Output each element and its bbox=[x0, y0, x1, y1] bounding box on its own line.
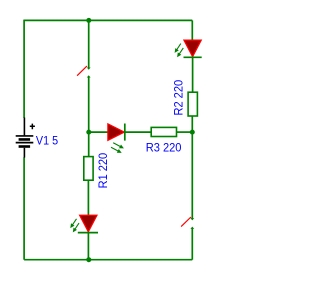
wire left rail upper (battery + lead) bbox=[23, 20, 25, 118]
wire right branch: switch SW2 to bottom rail bbox=[191, 229, 193, 260]
battery V1 bbox=[16, 118, 35, 158]
svg-text:R2 220: R2 220 bbox=[173, 80, 185, 116]
switch SW2 (right branch, open) bbox=[181, 217, 194, 229]
node junction middle-right (C) bbox=[190, 130, 195, 135]
wire top rail bbox=[24, 19, 192, 21]
LED D3 (bottom left, pointing down) bbox=[70, 215, 98, 232]
resistor R2 bbox=[188, 92, 197, 116]
node junction bottom (D) bbox=[86, 257, 91, 262]
LED D2 (middle, pointing right) bbox=[108, 124, 125, 153]
svg-text:R3 220: R3 220 bbox=[146, 142, 182, 154]
wire middle horizontal: LED D2 to R3 bbox=[125, 131, 152, 133]
node junction middle-left (B) bbox=[86, 130, 91, 135]
wire middle branch: top junction to switch SW1 bbox=[88, 20, 90, 68]
wire right branch: top rail to LED D1 bbox=[191, 20, 193, 40]
wire middle branch: LED D3 to bottom junction bbox=[87, 233, 89, 260]
node junction top (A) bbox=[86, 18, 91, 23]
wire right branch: R2 through junction to switch SW2 bbox=[191, 116, 193, 219]
wire middle horizontal: junction to LED D2 bbox=[89, 131, 108, 133]
resistor R1 bbox=[84, 157, 93, 181]
switch SW1 (middle branch, open) bbox=[77, 66, 91, 77]
wire middle branch: R1 to LED D3 bbox=[87, 180, 89, 215]
wire middle branch: middle junction to R1 bbox=[88, 132, 90, 157]
LED D1 (top right, pointing down) bbox=[175, 40, 202, 57]
svg-text:V1 5: V1 5 bbox=[36, 135, 58, 147]
wire middle horizontal: R3 to right junction bbox=[177, 131, 193, 133]
wire right branch: LED D1 to R2 bbox=[192, 57, 194, 92]
wire bottom rail bbox=[24, 259, 192, 261]
wire middle branch: switch SW1 to middle junction bbox=[88, 77, 90, 132]
resistor R3 bbox=[151, 127, 176, 136]
svg-text:R1 220: R1 220 bbox=[98, 153, 110, 189]
wire left rail lower (battery - lead) bbox=[23, 157, 25, 259]
